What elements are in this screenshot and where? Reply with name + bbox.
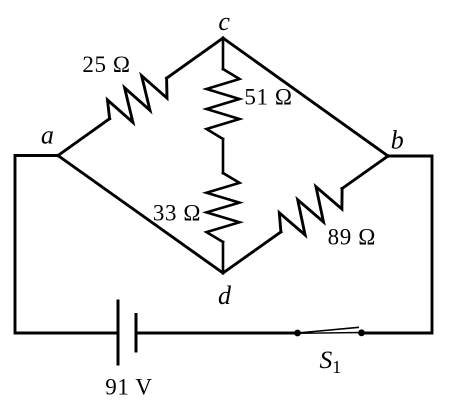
resistor R 89 ohm [279,187,342,235]
switch left terminal dot [294,330,301,337]
resistor R 51 ohm [207,69,240,139]
wire d to resistor 89 [223,232,281,273]
resistor R 33 ohm [207,173,240,242]
wire resistor 25 to c [167,38,223,78]
wire resistor 33 to d [222,242,225,273]
battery long plate [117,301,120,364]
svg-text:89 Ω: 89 Ω [328,225,376,250]
wire battery to switch left terminal [138,332,298,335]
wire a to left edge and down to bottom [15,156,117,334]
svg-text:S1: S1 [320,345,342,377]
svg-text:91 V: 91 V [105,375,152,400]
svg-text:33 Ω: 33 Ω [153,200,201,225]
switch right terminal dot [358,329,365,336]
svg-text:b: b [391,126,404,155]
switch S1 gap wire [298,332,362,335]
svg-text:d: d [218,281,232,310]
svg-text:25 Ω: 25 Ω [82,52,130,77]
wire c to b [223,38,388,156]
wire a to resistor 25 [58,119,110,156]
svg-text:51 Ω: 51 Ω [244,85,292,110]
switch S1 lever [298,327,360,333]
wire switch right terminal to corner and up to b [362,156,433,333]
battery short plate [135,315,138,352]
resistor R 25 ohm [108,76,168,123]
svg-text:c: c [218,7,230,36]
wire resistor 89 to b [342,156,388,189]
svg-text:a: a [41,121,54,150]
wire c down to resistor 51 [222,38,225,69]
wire between resistor 51 and resistor 33 [222,139,225,173]
wire a to d [58,156,223,274]
